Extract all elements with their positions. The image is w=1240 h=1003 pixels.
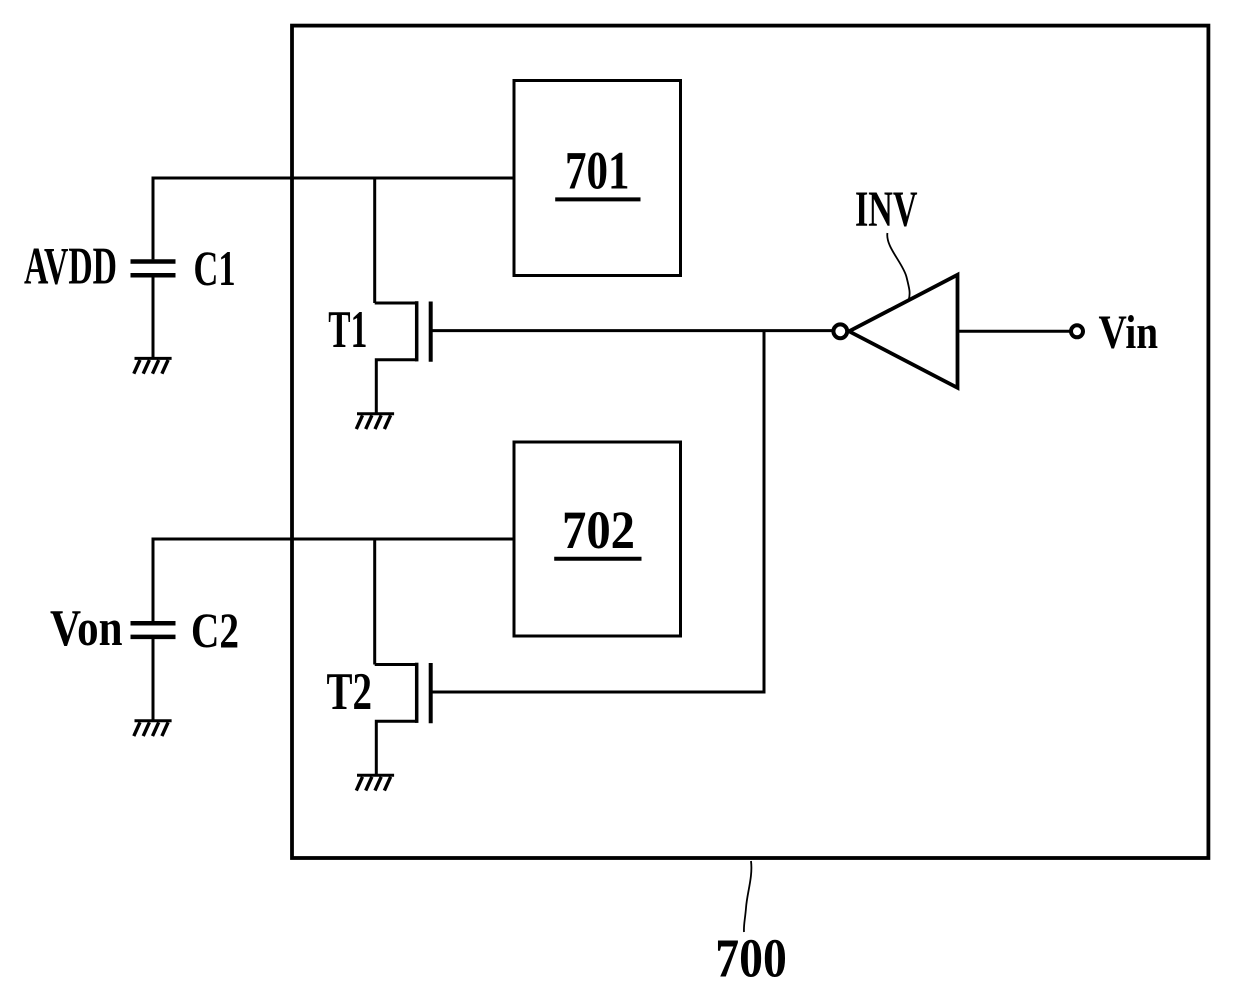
svg-text:C1: C1 (194, 240, 236, 296)
svg-text:700: 700 (715, 929, 787, 990)
svg-text:701: 701 (565, 141, 630, 201)
svg-text:702: 702 (562, 500, 635, 560)
svg-text:Vin: Vin (1099, 306, 1159, 359)
svg-text:T2: T2 (327, 663, 373, 721)
svg-text:INV: INV (855, 181, 918, 237)
svg-text:AVDD: AVDD (24, 238, 117, 296)
svg-text:Von: Von (50, 600, 123, 657)
svg-text:T1: T1 (328, 301, 367, 359)
svg-text:C2: C2 (191, 602, 239, 658)
